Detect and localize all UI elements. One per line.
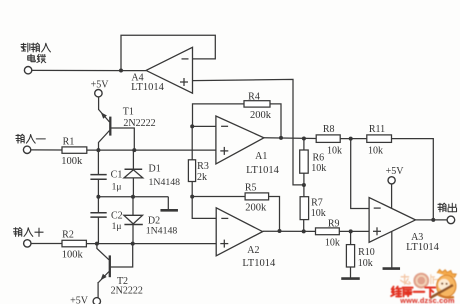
- svg-text:A2: A2: [247, 245, 259, 256]
- svg-text:R4: R4: [248, 92, 260, 103]
- label D1 1N4148: [149, 177, 181, 188]
- wire R2 to A2 noninverting: [86, 243, 216, 245]
- junction dot D1/D2: [131, 195, 135, 199]
- ground R10: [341, 277, 360, 280]
- wire R7 bottom: [303, 220, 305, 232]
- label R10: [358, 247, 375, 258]
- terminal +5V A3: [388, 177, 395, 184]
- wire to D1 cathode: [132, 150, 134, 169]
- wire A2 inverting: [192, 197, 216, 219]
- terminal input-plus: [24, 240, 31, 247]
- label R7: [311, 197, 323, 208]
- svg-text:10k: 10k: [358, 258, 373, 269]
- label A1: [255, 151, 267, 162]
- svg-text:R8: R8: [323, 124, 335, 135]
- transistor T1 base bar: [109, 117, 111, 136]
- T2 emitter arrow: [99, 274, 107, 282]
- op-amp A3 triangle: [369, 198, 415, 243]
- ground mid rail: [160, 209, 178, 212]
- label R5 200k: [245, 202, 267, 213]
- wire input-plus to R2: [31, 243, 62, 245]
- label T2: [117, 276, 128, 287]
- wire to C2 top: [97, 197, 99, 213]
- wire A4 feedback loop: [121, 35, 215, 70]
- label A4 LT1014: [131, 82, 165, 93]
- svg-text:200k: 200k: [250, 110, 272, 121]
- A1 minus sign: [221, 125, 228, 127]
- terminal +5V bottom: [93, 298, 100, 304]
- wire A3 to ground: [391, 231, 393, 268]
- wire C2 bottom: [97, 217, 99, 244]
- svg-text:LT1014: LT1014: [131, 82, 165, 93]
- junction dot T1 collector / C1: [96, 148, 100, 152]
- wire R3 to node: [191, 182, 193, 197]
- wire R8 to R11: [340, 138, 367, 140]
- wire input-minus to R1: [31, 149, 62, 151]
- label R11 10k: [368, 145, 383, 156]
- label T1: [123, 106, 134, 117]
- node: input-plus label 输入+: [13, 228, 43, 237]
- junction dot R7 bottom: [302, 229, 306, 233]
- label D2: [148, 216, 160, 227]
- svg-text:2k: 2k: [197, 172, 207, 183]
- wire R6 top: [303, 139, 305, 151]
- wire R4/A1 inverting vertical: [191, 126, 193, 159]
- capacitor C1 plates: [90, 175, 106, 180]
- label T2 2N2222: [111, 285, 143, 296]
- resistor R6 box: [300, 150, 309, 173]
- wire R5 right: [269, 197, 280, 232]
- wire T2 emitter to +5V: [97, 282, 99, 298]
- wire R9 to A3 noninverting: [339, 230, 369, 232]
- op-amp A4 triangle: [146, 47, 193, 93]
- label R3 2k: [197, 172, 207, 183]
- wire A4 output to cable terminal: [32, 69, 146, 71]
- resistor R4 box: [244, 101, 270, 107]
- wire mid rail to ground: [167, 197, 169, 210]
- label D2 1N4148: [146, 226, 178, 237]
- label R6: [312, 152, 324, 163]
- wire R11 to A3 output: [392, 139, 434, 220]
- wire R6 bottom: [303, 173, 305, 185]
- label R8 10k: [327, 145, 342, 156]
- label C2 1u: [112, 222, 122, 232]
- T1 emitter arrow: [99, 111, 107, 119]
- junction dot A1 inverting: [190, 124, 194, 128]
- wire R10 bottom: [350, 267, 352, 278]
- wire +5V to T1 emitter: [98, 97, 100, 110]
- label C1 1u: [112, 182, 122, 192]
- label R11: [369, 124, 385, 135]
- svg-text:2N2222: 2N2222: [111, 285, 143, 296]
- svg-text:10k: 10k: [327, 145, 342, 156]
- wire R4 right: [270, 104, 281, 138]
- wire R7 top: [303, 185, 305, 197]
- resistor R8 box: [316, 135, 340, 143]
- label R10 10k: [358, 258, 373, 269]
- svg-text:R6: R6: [312, 152, 324, 163]
- capacitor C2 plates: [90, 213, 106, 217]
- wire A2 output to R9: [263, 230, 316, 232]
- terminal input-minus: [23, 146, 30, 153]
- svg-text:R10: R10: [358, 247, 375, 258]
- svg-text:T1: T1: [123, 106, 134, 117]
- label +5V top: [91, 79, 110, 90]
- svg-text:A1: A1: [255, 151, 267, 162]
- A4 minus sign: [182, 58, 189, 60]
- ground A3: [383, 267, 401, 270]
- label +5V bottom: [70, 295, 89, 304]
- label A2 LT1014: [242, 258, 276, 269]
- label A2: [247, 245, 259, 256]
- svg-text:1N4148: 1N4148: [146, 226, 178, 237]
- label C1: [111, 170, 123, 181]
- label R1: [63, 136, 75, 147]
- resistor R2 box: [62, 240, 86, 247]
- label R2 100k: [62, 249, 84, 260]
- T2 emitter diagonal: [98, 272, 109, 283]
- label D1: [148, 164, 160, 175]
- svg-text:100k: 100k: [62, 249, 84, 260]
- terminal: to-input-cable: [24, 67, 31, 74]
- wire to A3 inverting: [351, 139, 369, 209]
- resistor R9 box: [316, 228, 340, 235]
- resistor R7 box: [300, 197, 309, 220]
- wire R5 left: [192, 196, 245, 198]
- terminal output: [447, 216, 455, 224]
- svg-text:R11: R11: [369, 124, 385, 135]
- A3 minus sign: [374, 207, 381, 209]
- svg-text:R5: R5: [245, 182, 257, 193]
- label R4: [248, 92, 260, 103]
- svg-text:100k: 100k: [61, 156, 83, 167]
- terminal +5V top: [95, 90, 102, 97]
- svg-text:+5V: +5V: [386, 166, 405, 177]
- wire A4 noninverting to guard node: [193, 79, 304, 184]
- junction dot T1 base / D1: [132, 148, 136, 152]
- junction dot R9/R10: [349, 229, 353, 233]
- wire to D2 anode: [132, 197, 134, 215]
- svg-text:10k: 10k: [325, 238, 340, 249]
- wire A1 output to R8/R11 rail: [264, 137, 316, 140]
- resistor R5 box: [245, 193, 269, 200]
- label R4 200k: [250, 110, 272, 121]
- wire to C1 top: [97, 150, 99, 174]
- label A4: [131, 73, 143, 84]
- label R3: [197, 161, 209, 172]
- resistor R11 box: [367, 135, 392, 143]
- label R6 10k: [311, 163, 326, 174]
- wire C1 bottom: [97, 179, 99, 197]
- T1 emitter diagonal: [99, 110, 110, 123]
- svg-text:LT1014: LT1014: [242, 258, 276, 269]
- junction dot A1 output: [279, 136, 283, 140]
- wire R4 left: [193, 104, 245, 127]
- svg-text:LT1014: LT1014: [406, 242, 440, 253]
- svg-text:D1: D1: [148, 164, 160, 175]
- junction dot R3/R5/A2 node: [190, 195, 194, 199]
- junction dot T2 base / D2: [131, 242, 135, 246]
- svg-text:1N4148: 1N4148: [149, 177, 181, 188]
- node: input-minus label 输入一: [16, 134, 45, 143]
- wire A1 inverting input: [192, 125, 216, 127]
- node: cable input label 到输入电缆: [21, 43, 50, 63]
- svg-text:R7: R7: [311, 197, 323, 208]
- svg-text:200k: 200k: [245, 202, 267, 213]
- svg-text:10k: 10k: [368, 145, 383, 156]
- label R7 10k: [311, 208, 326, 219]
- svg-text:1μ: 1μ: [112, 222, 122, 232]
- junction dot R6 top: [302, 137, 306, 141]
- label A1 LT1014: [246, 165, 280, 176]
- wire +5V to A3: [391, 184, 393, 209]
- svg-text:+5V: +5V: [91, 79, 110, 90]
- svg-text:R1: R1: [63, 136, 75, 147]
- label R2: [62, 230, 74, 241]
- label T1 2N2222: [123, 118, 155, 129]
- svg-text:2N2222: 2N2222: [123, 118, 155, 129]
- svg-text:10k: 10k: [311, 208, 326, 219]
- A2 minus sign: [221, 217, 228, 219]
- diode D1: [124, 169, 143, 196]
- svg-text:1μ: 1μ: [112, 182, 122, 192]
- svg-text:R9: R9: [328, 218, 340, 229]
- svg-text:R2: R2: [62, 230, 74, 241]
- wire R10 top: [350, 231, 352, 244]
- svg-text:R3: R3: [197, 161, 209, 172]
- watermark dzsc logo: [391, 270, 456, 304]
- T2 base lead: [111, 244, 133, 267]
- label R8: [323, 124, 335, 135]
- A1 plus sign: [220, 147, 228, 155]
- label R5: [245, 182, 257, 193]
- transistor T2 base bar: [109, 255, 111, 277]
- junction dot R8/R11: [349, 137, 353, 141]
- wire A3 output: [416, 219, 448, 221]
- label R1 100k: [61, 156, 83, 167]
- svg-text:10k: 10k: [311, 163, 326, 174]
- junction dot A3 output: [431, 218, 435, 222]
- op-amp A1 triangle: [216, 116, 264, 164]
- junction dot A2 output: [278, 229, 282, 233]
- label +5V A3: [386, 166, 405, 177]
- wire R1 to A1 noninverting: [87, 149, 216, 151]
- svg-text:+5V: +5V: [70, 295, 89, 304]
- label C2: [111, 211, 123, 222]
- svg-text:C2: C2: [111, 211, 123, 222]
- svg-text:C1: C1: [111, 170, 123, 181]
- A4 plus sign: [180, 78, 188, 86]
- resistor R10 box: [346, 245, 354, 267]
- junction dot guard node R6/R7: [302, 183, 306, 187]
- node: output label 输出: [438, 203, 457, 212]
- wire mid rail: [98, 196, 168, 198]
- resistor R1 box: [62, 147, 87, 153]
- op-amp A2 triangle: [216, 208, 262, 256]
- resistor R3 box: [188, 160, 195, 182]
- label R9: [328, 218, 340, 229]
- label R9 10k: [325, 238, 340, 249]
- A2 plus sign: [220, 240, 228, 248]
- label A3: [411, 232, 423, 243]
- junction dot C1/C2: [96, 195, 100, 199]
- diode D2: [124, 215, 143, 243]
- svg-text:LT1014: LT1014: [246, 165, 280, 176]
- junction dot T2 collector: [95, 242, 99, 246]
- A3 plus sign: [373, 227, 381, 235]
- T2 collector diagonal: [97, 244, 109, 260]
- svg-text:www.dzsc.com: www.dzsc.com: [399, 296, 455, 304]
- junction dot A4 feedback: [119, 69, 123, 73]
- T1 collector diagonal: [99, 131, 110, 151]
- label A3 LT1014: [406, 242, 440, 253]
- T1 base lead: [111, 128, 134, 150]
